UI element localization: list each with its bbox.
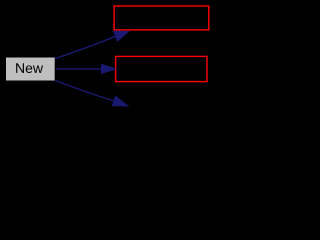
node box1 (top red) [114,6,209,30]
node box2 (middle red) [116,56,207,81]
edge New->box2 [56,64,116,73]
edge New->cropped node [55,81,128,107]
edge New->box1 [55,31,129,58]
node New [5,57,55,81]
